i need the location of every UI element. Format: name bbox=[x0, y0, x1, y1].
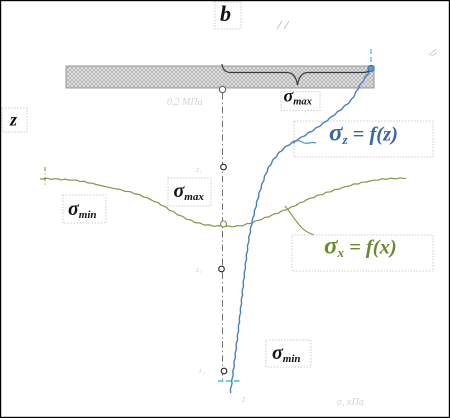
foundation bar (hatched) bbox=[66, 66, 374, 88]
label box z (left) bbox=[2, 108, 27, 132]
sigma_min label box (left) bbox=[63, 195, 106, 223]
label box b bbox=[215, 1, 241, 29]
green leader line to sigma_x label bbox=[285, 206, 314, 235]
brace over right half of bar bbox=[222, 64, 372, 85]
sigma_max label box (under brace) bbox=[281, 86, 320, 111]
svg-text:z: z bbox=[241, 394, 246, 405]
sigma_min label box (bottom) bbox=[266, 340, 311, 367]
blue node at top of sigma_z curve bbox=[368, 65, 374, 71]
sigma_z = f(z) curve (blue) bbox=[230, 69, 370, 393]
sigma_max label box (curve centre) bbox=[168, 178, 211, 206]
white node on green curve at axis bbox=[221, 221, 227, 227]
white node on axis (depth 2) bbox=[219, 266, 225, 272]
blue squiggle connector to sigma_z label bbox=[293, 141, 316, 144]
svg-text:0,2 МПа: 0,2 МПа bbox=[167, 97, 203, 108]
sigma_z = f(z) label box bbox=[294, 120, 433, 158]
svg-text:σ, кПа: σ, кПа bbox=[337, 397, 364, 408]
cyan dashed tick above bar right end bbox=[370, 49, 372, 64]
sigma_x = f(x) label box bbox=[292, 233, 433, 272]
svg-text:σz = f(z): σz = f(z) bbox=[329, 120, 398, 148]
svg-text:z: z bbox=[9, 110, 17, 130]
centre point circle under bar bbox=[219, 86, 225, 92]
faint stray mark top centre bbox=[277, 21, 289, 29]
white node on axis (depth 1) bbox=[221, 164, 227, 170]
svg-text:z₂: z₂ bbox=[195, 265, 202, 274]
svg-text:σx = f(x): σx = f(x) bbox=[324, 233, 397, 261]
cyan axis end tick (bottom) bbox=[218, 380, 242, 382]
white node on axis (depth 3) bbox=[221, 368, 227, 374]
faint stray mark top right bbox=[429, 49, 437, 56]
sigma_x = f(x) curve (green) bbox=[40, 178, 406, 227]
svg-text:z₁: z₁ bbox=[195, 165, 202, 174]
green dash-dot tick at left end of sigma-x curve bbox=[44, 167, 46, 187]
centre axis (dash-dot, vertical) bbox=[222, 93, 224, 380]
svg-text:b: b bbox=[220, 1, 231, 26]
svg-text:z₃: z₃ bbox=[198, 366, 205, 375]
